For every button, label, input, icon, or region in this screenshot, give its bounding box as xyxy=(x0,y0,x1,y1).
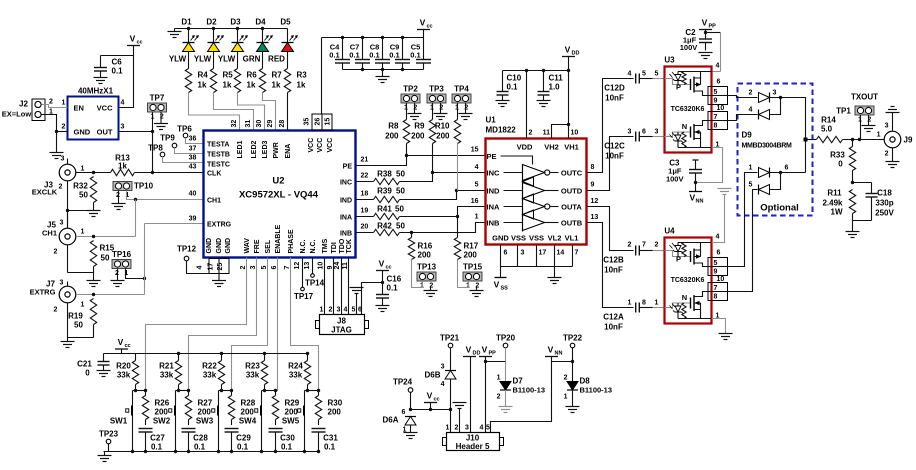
svg-text:4: 4 xyxy=(716,234,720,241)
diode D7 B1100-13 xyxy=(500,382,511,391)
svg-text:200: 200 xyxy=(285,408,299,417)
svg-text:N: N xyxy=(682,293,687,302)
svg-text:VH1: VH1 xyxy=(564,143,579,152)
svg-text:50: 50 xyxy=(396,187,405,196)
svg-text:V: V xyxy=(482,345,488,355)
svg-text:SEL: SEL xyxy=(265,239,272,253)
U1 internal buffers xyxy=(522,165,524,232)
svg-text:12: 12 xyxy=(294,262,301,270)
svg-text:0.1: 0.1 xyxy=(237,443,249,452)
svg-text:0.1: 0.1 xyxy=(349,51,359,60)
resistor R32 50 xyxy=(90,177,96,203)
capacitor C8 0.1 xyxy=(382,38,384,60)
svg-text:4: 4 xyxy=(121,100,125,107)
svg-text:43: 43 xyxy=(189,164,197,171)
svg-text:16: 16 xyxy=(471,198,479,205)
svg-text:30: 30 xyxy=(256,120,263,128)
resistor R10 200 xyxy=(457,103,459,120)
svg-text:7: 7 xyxy=(714,114,718,121)
wire U4 5/9 to D9 pin1 xyxy=(728,173,758,267)
ground J2/X1 xyxy=(50,152,64,154)
svg-text:40: 40 xyxy=(189,191,197,198)
wire D9 pin6 to output node xyxy=(770,172,806,174)
capacitor C9 0.1 xyxy=(402,38,404,60)
wire U3 5/9 to D9 pin2 xyxy=(728,96,758,98)
svg-text:6: 6 xyxy=(717,79,721,86)
resistor R3 1k xyxy=(287,52,289,69)
resistor R38 50 xyxy=(356,181,374,183)
svg-text:N.C.: N.C. xyxy=(310,239,317,253)
wire TP12 to U2 GND pins xyxy=(187,261,210,274)
capacitor C28 0.1 xyxy=(182,428,196,430)
svg-text:C12D: C12D xyxy=(604,84,625,93)
svg-text:SW3: SW3 xyxy=(196,417,214,426)
svg-text:200: 200 xyxy=(155,408,169,417)
svg-text:1: 1 xyxy=(628,300,632,307)
U2 VCC pin box with pins 35 26 15 xyxy=(312,114,332,130)
resistor R39 50 xyxy=(356,199,374,201)
wire PHASE net U2 pin7 to SW5 cell xyxy=(291,258,319,391)
svg-text:14: 14 xyxy=(557,250,565,257)
svg-text:cc: cc xyxy=(427,24,433,30)
svg-text:MMBD3004BRM: MMBD3004BRM xyxy=(742,143,792,150)
svg-text:C12C: C12C xyxy=(604,142,625,151)
svg-text:C10: C10 xyxy=(507,74,522,83)
svg-text:GND: GND xyxy=(492,234,509,243)
svg-text:0: 0 xyxy=(838,160,843,169)
svg-text:YLW: YLW xyxy=(194,55,212,64)
diode D8 B1100-13 xyxy=(567,382,578,391)
wire R32 bottom / J3 pin2 to ground xyxy=(93,203,95,211)
ground U4 pin 4 xyxy=(718,188,732,190)
svg-text:4: 4 xyxy=(475,164,479,171)
svg-text:NN: NN xyxy=(555,351,563,357)
power flag Vcc at switch rail xyxy=(115,348,128,350)
svg-text:TCK: TCK xyxy=(346,239,353,253)
node TXOUT junction xyxy=(804,138,808,142)
test point TP9 xyxy=(172,143,177,148)
svg-text:R23: R23 xyxy=(245,362,260,371)
svg-text:U1: U1 xyxy=(486,116,497,125)
switch SW1 xyxy=(132,391,134,406)
svg-text:5: 5 xyxy=(352,307,356,314)
wire J7 pin3 stub xyxy=(67,282,69,287)
svg-text:11: 11 xyxy=(543,130,551,137)
svg-text:R6: R6 xyxy=(247,71,258,80)
svg-text:4: 4 xyxy=(480,425,484,432)
wire Vnn to J10 pin5 xyxy=(491,362,552,433)
svg-text:200: 200 xyxy=(411,132,425,141)
wire X1 OUT to CLK net xyxy=(119,131,153,133)
svg-text:1.0: 1.0 xyxy=(549,83,561,92)
svg-text:R28: R28 xyxy=(241,399,256,408)
wire R7 to U2 pin 29 xyxy=(263,93,276,131)
wire switch Vcc rail xyxy=(104,353,308,355)
resistor R30 200 xyxy=(318,391,320,396)
capacitor C12B 10nF xyxy=(635,246,637,256)
ground R11 C18 xyxy=(846,231,860,233)
svg-text:1: 1 xyxy=(655,300,659,307)
svg-text:V: V xyxy=(548,345,554,355)
svg-text:3: 3 xyxy=(465,425,469,432)
svg-text:50: 50 xyxy=(396,222,405,231)
wire OUTA to C12B xyxy=(587,207,634,251)
U1 internal input stubs xyxy=(504,172,523,174)
svg-text:8: 8 xyxy=(642,300,646,307)
svg-text:TMS: TMS xyxy=(322,238,329,253)
svg-text:PP: PP xyxy=(709,24,717,30)
ground C16 xyxy=(376,305,390,307)
wire switch ground rail xyxy=(104,451,319,453)
svg-text:19: 19 xyxy=(361,208,369,215)
svg-text:2: 2 xyxy=(413,105,417,112)
svg-text:10nF: 10nF xyxy=(604,266,623,275)
svg-text:5.0: 5.0 xyxy=(821,125,833,134)
ground TP1 pin2 xyxy=(868,115,870,126)
diode D9 pin4 xyxy=(758,110,760,120)
wire R17 to TP15 pin1 xyxy=(458,260,469,288)
svg-text:IND: IND xyxy=(487,187,501,196)
svg-text:R21: R21 xyxy=(159,362,174,371)
wire OUTC to C12D xyxy=(587,79,634,173)
wire U1 bottom pins to bus xyxy=(500,245,502,267)
svg-text:50: 50 xyxy=(101,254,110,263)
svg-text:GRN: GRN xyxy=(243,55,261,64)
capacitor C10 0.1 xyxy=(502,71,504,92)
ground J9 pin3 above xyxy=(892,113,894,131)
wire U4 pin1 to ground xyxy=(712,319,726,334)
svg-text:VDD: VDD xyxy=(517,143,533,152)
resistor R9 200 xyxy=(432,103,434,120)
svg-text:3: 3 xyxy=(337,307,341,314)
svg-text:4: 4 xyxy=(441,381,445,388)
U4 right pin boxes xyxy=(708,258,728,276)
svg-text:SW1: SW1 xyxy=(110,417,128,426)
svg-text:PE: PE xyxy=(487,152,497,161)
capacitor C21 0 xyxy=(103,354,105,362)
svg-text:1k: 1k xyxy=(198,81,207,90)
svg-text:R26: R26 xyxy=(155,399,170,408)
wire Vdd to J10 pin3 xyxy=(470,357,472,433)
wire TP8 to U2 pin 38 xyxy=(163,157,204,163)
wire TP9 to U2 pin 37 xyxy=(175,148,204,154)
svg-text:LED3: LED3 xyxy=(262,141,269,159)
svg-text:N.C.: N.C. xyxy=(300,239,307,253)
svg-text:EXTRG: EXTRG xyxy=(30,288,56,297)
svg-text:1k: 1k xyxy=(272,81,281,90)
capacitor C18 330p 250V xyxy=(866,193,878,195)
svg-text:1: 1 xyxy=(564,394,568,401)
svg-text:B1100-13: B1100-13 xyxy=(580,386,613,395)
ground TP3 pin2 xyxy=(440,103,442,114)
svg-text:TP13: TP13 xyxy=(417,263,437,272)
ground D8 xyxy=(572,390,574,407)
svg-text:V: V xyxy=(466,345,472,355)
svg-text:0.1: 0.1 xyxy=(281,443,293,452)
svg-text:6: 6 xyxy=(402,409,406,416)
svg-text:TC6320K6: TC6320K6 xyxy=(671,106,705,113)
svg-text:10: 10 xyxy=(318,262,325,270)
svg-text:C27: C27 xyxy=(150,434,165,443)
svg-text:33k: 33k xyxy=(203,371,217,380)
wire U3 7/8 to D9 pin4 xyxy=(728,115,758,121)
svg-text:R3: R3 xyxy=(297,71,308,80)
svg-text:INB: INB xyxy=(340,230,352,237)
svg-text:TESTB: TESTB xyxy=(207,151,230,158)
svg-text:17: 17 xyxy=(539,250,547,257)
svg-text:330p: 330p xyxy=(875,199,893,208)
transistor U4 TC6320K6 body xyxy=(665,238,712,324)
wire LED supply rail xyxy=(175,28,288,30)
test point TP22 xyxy=(570,343,575,348)
wire R16 to TP13 pin1 xyxy=(412,260,423,288)
ground C21 xyxy=(97,370,111,372)
resistor R13 1k xyxy=(111,169,135,175)
svg-text:OUTA: OUTA xyxy=(561,202,582,211)
connector J8 JTAG xyxy=(320,315,365,335)
ground J8 pin5 xyxy=(350,287,364,289)
wire D6B to Vcc node xyxy=(450,379,452,410)
test point TP15 xyxy=(463,272,482,281)
svg-text:3: 3 xyxy=(60,280,64,287)
svg-text:TESTC: TESTC xyxy=(207,161,230,168)
wire X1 GND pin xyxy=(57,131,68,133)
diode D6B xyxy=(445,370,456,372)
svg-text:WAV: WAV xyxy=(244,238,251,254)
wire R14 to J9 xyxy=(843,139,879,141)
capacitor C31 0.1 xyxy=(312,428,326,430)
svg-text:18: 18 xyxy=(361,191,369,198)
svg-text:SW4: SW4 xyxy=(239,417,257,426)
svg-text:37: 37 xyxy=(189,146,197,153)
svg-text:2: 2 xyxy=(439,105,443,112)
wire ENABLE net U2 pin6 to SW4 cell xyxy=(277,258,279,391)
svg-text:5: 5 xyxy=(655,71,659,78)
svg-text:TP17: TP17 xyxy=(294,292,314,301)
svg-text:C28: C28 xyxy=(193,434,208,443)
svg-text:SS: SS xyxy=(501,286,509,292)
wire OUTD to C12C xyxy=(587,137,634,191)
resistor R7 1k xyxy=(262,52,264,69)
wire OUTB to C12A xyxy=(587,223,634,308)
wire U1 VDD pin2 xyxy=(526,71,528,139)
svg-text:PWR: PWR xyxy=(273,142,280,158)
svg-text:TESTA: TESTA xyxy=(207,141,229,148)
svg-text:100V: 100V xyxy=(680,43,698,52)
test point TP21 xyxy=(448,343,453,348)
ground TP16 pin2 xyxy=(117,269,119,281)
svg-text:10nF: 10nF xyxy=(605,94,624,103)
svg-text:R16: R16 xyxy=(418,242,433,251)
svg-text:1: 1 xyxy=(749,165,753,172)
svg-text:TC6320K6: TC6320K6 xyxy=(671,277,705,284)
svg-text:33k: 33k xyxy=(289,371,303,380)
svg-text:C18: C18 xyxy=(877,189,892,198)
svg-text:R24: R24 xyxy=(288,362,303,371)
coax connector J7 EXTRG xyxy=(59,286,76,303)
svg-text:0.1: 0.1 xyxy=(387,284,399,293)
ground TP7 pin2 xyxy=(160,112,162,124)
svg-text:10: 10 xyxy=(571,130,579,137)
ground D7 xyxy=(505,390,507,407)
svg-text:TP12: TP12 xyxy=(177,245,197,254)
svg-text:R33: R33 xyxy=(830,151,845,160)
wire Vpp to J10 pin4 xyxy=(485,357,487,433)
svg-text:GND: GND xyxy=(74,128,91,137)
svg-text:ENABLE: ENABLE xyxy=(275,224,282,253)
svg-text:FRE: FRE xyxy=(254,239,261,253)
resistor R33 0 xyxy=(852,140,854,147)
svg-text:4: 4 xyxy=(197,266,204,270)
svg-text:C30: C30 xyxy=(280,434,295,443)
svg-text:2: 2 xyxy=(160,114,164,121)
svg-text:7: 7 xyxy=(575,250,579,257)
svg-text:V: V xyxy=(379,259,385,269)
svg-text:2: 2 xyxy=(497,394,501,401)
svg-text:3: 3 xyxy=(121,124,125,131)
svg-text:0.1: 0.1 xyxy=(507,83,519,92)
svg-text:C11: C11 xyxy=(549,74,564,83)
svg-text:10: 10 xyxy=(717,276,725,283)
power flag Vcc at X1 xyxy=(127,45,140,47)
svg-text:0.1: 0.1 xyxy=(410,51,420,60)
svg-text:1: 1 xyxy=(81,229,85,236)
wire TMS to J8 pin1 xyxy=(324,258,326,315)
svg-text:6: 6 xyxy=(642,129,646,136)
test point TP17 xyxy=(302,258,304,288)
svg-text:2: 2 xyxy=(62,124,66,131)
wire TCK to J8 pin4 xyxy=(348,258,350,315)
wire TDI to J8 pin2 xyxy=(333,258,335,315)
svg-text:SW5: SW5 xyxy=(282,417,300,426)
wire Vpp to U3 pin 4 xyxy=(706,32,721,34)
svg-text:R32: R32 xyxy=(73,182,88,191)
svg-text:R7: R7 xyxy=(272,71,283,80)
wire TP10 pin1 to CH1 net xyxy=(127,191,204,200)
wire C6 tap xyxy=(101,55,134,57)
svg-text:TDI: TDI xyxy=(331,242,338,253)
wire IND net to U1 pin5 xyxy=(400,191,486,200)
svg-text:50: 50 xyxy=(395,205,404,214)
resistor R11 2.49k 1W xyxy=(849,190,855,214)
svg-text:D3: D3 xyxy=(230,18,241,27)
svg-text:P: P xyxy=(676,83,681,92)
svg-text:TP3: TP3 xyxy=(429,85,444,94)
svg-text:0.1: 0.1 xyxy=(194,443,206,452)
svg-text:VL1: VL1 xyxy=(565,234,579,243)
svg-text:VCC: VCC xyxy=(308,138,315,153)
svg-text:V: V xyxy=(420,18,426,28)
svg-text:J8: J8 xyxy=(337,317,346,326)
node wire cell 2 xyxy=(176,390,189,392)
test point TP6 xyxy=(183,133,188,138)
wire TP16 pin1 to EXTRG net xyxy=(126,269,145,279)
svg-text:YLW: YLW xyxy=(218,55,236,64)
transistor U3 TC6320K6 body xyxy=(665,67,712,153)
test point TP23 xyxy=(106,439,111,444)
U2 GND pin box with pins 17 25 xyxy=(209,259,229,274)
svg-text:CH1: CH1 xyxy=(207,197,221,204)
svg-text:PHASE: PHASE xyxy=(288,229,295,253)
ground TP13 pin2 xyxy=(430,288,432,291)
resistor R16 200 xyxy=(411,233,413,238)
svg-text:TP23: TP23 xyxy=(99,430,119,439)
svg-text:C12B: C12B xyxy=(603,256,624,265)
wire R10 to IND net xyxy=(457,144,459,191)
resistor R24 33k xyxy=(307,354,309,361)
svg-text:200: 200 xyxy=(198,408,212,417)
svg-text:TP24: TP24 xyxy=(393,378,413,387)
svg-text:2.49k: 2.49k xyxy=(822,199,843,208)
svg-text:5: 5 xyxy=(714,89,718,96)
svg-text:38: 38 xyxy=(189,155,197,162)
svg-text:2: 2 xyxy=(749,90,753,97)
svg-text:V: V xyxy=(494,280,500,290)
svg-text:7: 7 xyxy=(642,242,646,249)
U1 internal PE wire xyxy=(501,156,533,165)
svg-text:D6B: D6B xyxy=(424,371,440,380)
svg-text:cc: cc xyxy=(434,397,440,403)
svg-text:8: 8 xyxy=(591,164,595,171)
svg-text:OUTD: OUTD xyxy=(561,186,583,195)
svg-text:VCC: VCC xyxy=(327,138,334,153)
svg-text:PE: PE xyxy=(343,163,353,170)
svg-text:2: 2 xyxy=(49,99,53,106)
resistor R26 200 xyxy=(145,391,147,396)
svg-text:EXCLK: EXCLK xyxy=(32,188,58,197)
svg-text:EXTRG: EXTRG xyxy=(207,221,232,228)
test point TP14 xyxy=(312,258,314,274)
svg-text:R11: R11 xyxy=(827,189,842,198)
svg-text:5: 5 xyxy=(475,182,479,189)
test point TP4 xyxy=(452,94,471,103)
test point TP7 xyxy=(148,103,167,112)
svg-text:VH2: VH2 xyxy=(544,143,559,152)
svg-text:10nF: 10nF xyxy=(605,152,624,161)
ground C11 xyxy=(537,100,551,102)
svg-text:10nF: 10nF xyxy=(604,323,623,332)
svg-text:D1: D1 xyxy=(181,18,192,27)
svg-text:15: 15 xyxy=(471,147,479,154)
svg-text:2: 2 xyxy=(429,283,433,290)
IC U1 MD1822 body xyxy=(486,139,587,245)
svg-text:33k: 33k xyxy=(160,371,174,380)
svg-text:8: 8 xyxy=(714,294,718,301)
ground TP4 pin2 xyxy=(465,103,467,114)
resistor R29 200 xyxy=(275,391,277,396)
svg-text:4: 4 xyxy=(344,307,348,314)
svg-text:3: 3 xyxy=(61,156,65,163)
wire J2 pin2 to X1 EN xyxy=(42,105,68,108)
wire Vcc rail to U2 VCC pins xyxy=(321,38,323,115)
svg-text:2: 2 xyxy=(529,130,533,137)
wire R19 bottom / J7 pin2 to ground xyxy=(93,325,95,338)
wire Vcc node to J10 pin1 xyxy=(411,409,451,411)
svg-text:VSS: VSS xyxy=(529,234,544,243)
capacitor C3 1uF 100V xyxy=(693,159,699,161)
wire R6 to U2 pin 30 xyxy=(238,93,265,131)
ground J10 pin2 xyxy=(453,402,467,404)
svg-text:R10: R10 xyxy=(435,122,450,131)
svg-text:J2: J2 xyxy=(19,100,28,109)
power flag Vpp at J10 xyxy=(479,356,492,358)
svg-text:D2: D2 xyxy=(206,18,217,27)
node wire cell 5 xyxy=(305,390,319,392)
switch SW4 xyxy=(261,391,263,406)
wire J2 pin1 / X1 GND to ground xyxy=(42,115,57,153)
svg-text:C31: C31 xyxy=(323,434,338,443)
svg-text:VCC: VCC xyxy=(317,138,324,153)
